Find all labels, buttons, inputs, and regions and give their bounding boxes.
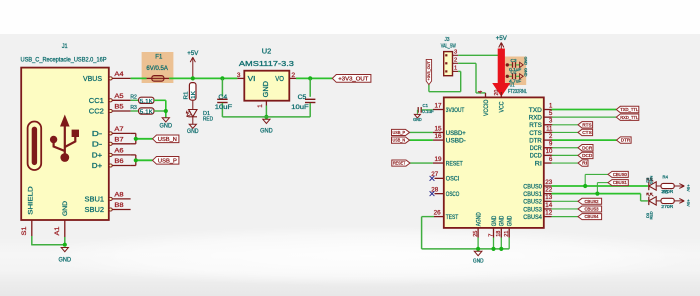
svg-text:D-: D- (92, 141, 103, 148)
svg-text:SHIELD: SHIELD (28, 186, 35, 215)
svg-text:B7: B7 (114, 136, 124, 143)
svg-text:DCD: DCD (582, 153, 593, 158)
svg-text:1: 1 (454, 66, 457, 72)
svg-text:VO: VO (275, 76, 284, 83)
svg-text:A1: A1 (54, 226, 61, 235)
svg-text:RESET: RESET (393, 161, 406, 166)
svg-text:DCR: DCR (530, 146, 543, 152)
svg-text:CBUS1: CBUS1 (523, 192, 542, 198)
svg-text:R2: R2 (130, 94, 137, 100)
svg-text:C4: C4 (218, 95, 227, 101)
svg-text:7: 7 (488, 234, 494, 237)
svg-text:+5V: +5V (686, 184, 691, 192)
svg-text:RXD_TTL: RXD_TTL (620, 115, 638, 120)
svg-text:3V3OUT: 3V3OUT (446, 108, 465, 114)
svg-text:FT232RNL: FT232RNL (508, 89, 527, 95)
svg-text:RED: RED (650, 211, 654, 219)
svg-text:RTS: RTS (529, 123, 542, 129)
svg-text:3: 3 (237, 72, 241, 79)
svg-text:TEST: TEST (446, 215, 459, 221)
svg-text:USB_N: USB_N (393, 138, 406, 143)
svg-text:R4: R4 (663, 175, 669, 180)
svg-text:GND: GND (413, 117, 422, 122)
svg-text:5.1K: 5.1K (140, 110, 153, 116)
svg-text:2: 2 (292, 72, 296, 79)
svg-text:VCCIO: VCCIO (484, 99, 490, 116)
svg-text:USB_N: USB_N (158, 137, 177, 143)
svg-text:VI: VI (248, 76, 256, 83)
svg-text:R1: R1 (183, 92, 189, 100)
svg-text:5.1K: 5.1K (140, 99, 153, 105)
svg-text:0.1uF: 0.1uF (422, 109, 434, 115)
svg-text:OSCO: OSCO (446, 192, 460, 198)
svg-text:R5: R5 (663, 190, 669, 195)
svg-text:CBUS2: CBUS2 (523, 200, 542, 206)
svg-text:GND: GND (62, 201, 69, 216)
svg-text:TXD_TTL: TXD_TTL (620, 107, 638, 112)
svg-text:15: 15 (435, 126, 443, 132)
svg-text:GND: GND (473, 258, 484, 264)
svg-text:VAL_SW: VAL_SW (441, 43, 457, 49)
svg-text:22: 22 (545, 187, 553, 193)
svg-text:CTS: CTS (529, 131, 542, 137)
svg-text:RI: RI (582, 161, 587, 166)
svg-text:USB_C_Receptacle_USB2.0_16P: USB_C_Receptacle_USB2.0_16P (21, 57, 107, 64)
svg-text:12: 12 (545, 210, 553, 216)
svg-text:R3: R3 (130, 105, 137, 111)
svg-text:16: 16 (435, 134, 443, 140)
svg-text:A4: A4 (114, 71, 124, 78)
svg-text:A6: A6 (114, 148, 124, 155)
svg-text:TXD: TXD (529, 108, 543, 114)
svg-text:VBUS: VBUS (83, 76, 102, 83)
svg-text:4: 4 (478, 90, 484, 93)
svg-text:GRN: GRN (650, 176, 654, 185)
svg-text:GND: GND (59, 258, 72, 264)
svg-text:+3V3_OUT: +3V3_OUT (427, 60, 431, 80)
svg-text:6V/0.5A: 6V/0.5A (146, 66, 168, 72)
svg-text:+5V: +5V (686, 199, 691, 207)
svg-text:A7: A7 (114, 126, 124, 133)
svg-text:GND: GND (500, 215, 506, 226)
svg-text:DCD: DCD (530, 154, 543, 160)
svg-text:CBUS4: CBUS4 (523, 215, 542, 221)
svg-text:2: 2 (454, 58, 457, 64)
svg-text:GND: GND (263, 81, 270, 97)
svg-text:U1: U1 (510, 83, 515, 89)
svg-text:14: 14 (545, 203, 553, 209)
svg-text:270R: 270R (661, 204, 674, 209)
svg-text:RED: RED (203, 116, 213, 122)
svg-text:GND: GND (160, 124, 173, 130)
svg-text:CC1: CC1 (89, 98, 104, 105)
svg-text:F1: F1 (155, 55, 163, 61)
svg-text:CBUS1: CBUS1 (613, 180, 628, 185)
svg-text:GND: GND (524, 57, 529, 66)
svg-text:+5V: +5V (187, 51, 198, 57)
svg-text:J3: J3 (445, 37, 450, 43)
svg-text:S1: S1 (21, 226, 28, 235)
svg-text:J1: J1 (62, 43, 69, 50)
svg-text:C2: C2 (511, 69, 517, 74)
svg-text:CTS: CTS (582, 130, 592, 135)
svg-text:CBUS3: CBUS3 (523, 207, 542, 213)
svg-text:13: 13 (545, 195, 553, 201)
svg-text:18: 18 (496, 231, 502, 237)
svg-text:DCR: DCR (582, 145, 593, 150)
svg-text:17: 17 (435, 103, 443, 109)
svg-text:11: 11 (546, 126, 553, 132)
svg-text:D+: D+ (92, 152, 103, 159)
svg-text:CBUS3: CBUS3 (585, 207, 600, 212)
svg-text:B5: B5 (114, 104, 124, 111)
svg-text:1: 1 (257, 104, 264, 108)
svg-text:SBU1: SBU1 (85, 196, 105, 203)
svg-text:AMS1117-3.3: AMS1117-3.3 (239, 61, 294, 68)
svg-text:D-: D- (92, 131, 103, 138)
svg-text:21: 21 (504, 231, 510, 237)
svg-text:+5V: +5V (496, 36, 507, 42)
svg-text:USB_P: USB_P (158, 158, 177, 164)
svg-text:CBUS0: CBUS0 (523, 184, 542, 190)
svg-text:GND: GND (508, 215, 514, 226)
svg-text:USBD+: USBD+ (446, 131, 466, 137)
svg-text:10uF: 10uF (291, 105, 309, 111)
svg-text:DTR: DTR (621, 138, 631, 143)
svg-text:19: 19 (435, 157, 443, 163)
svg-text:1K: 1K (191, 91, 197, 99)
svg-text:C5: C5 (298, 95, 307, 101)
svg-text:+3V3_OUT: +3V3_OUT (338, 76, 369, 82)
svg-text:USB_P: USB_P (393, 130, 406, 135)
svg-text:CBUS0: CBUS0 (613, 172, 628, 177)
svg-text:CBUS2: CBUS2 (585, 199, 600, 204)
svg-text:CC2: CC2 (89, 109, 104, 116)
svg-text:C3: C3 (511, 58, 517, 63)
svg-text:GND: GND (187, 129, 199, 135)
svg-text:A5: A5 (114, 93, 124, 100)
svg-text:B6: B6 (114, 158, 124, 165)
svg-text:U2: U2 (262, 49, 272, 56)
svg-text:GND: GND (492, 215, 498, 226)
svg-text:23: 23 (545, 180, 553, 186)
svg-text:A8: A8 (114, 192, 124, 199)
svg-text:AGND: AGND (476, 212, 482, 227)
svg-text:10uF: 10uF (215, 105, 233, 111)
svg-text:3: 3 (454, 50, 457, 56)
svg-text:26: 26 (434, 210, 442, 216)
svg-text:CBUS4: CBUS4 (585, 214, 600, 219)
svg-text:OSCI: OSCI (446, 177, 460, 183)
svg-text:SBU2: SBU2 (85, 207, 105, 214)
svg-text:20: 20 (494, 90, 500, 96)
svg-text:USBD-: USBD- (446, 138, 466, 144)
svg-text:GND: GND (260, 129, 273, 135)
svg-text:D+: D+ (92, 163, 103, 170)
svg-text:RXD: RXD (529, 115, 543, 121)
svg-text:RI: RI (535, 161, 542, 167)
svg-text:RTS: RTS (582, 122, 592, 127)
svg-text:GND: GND (524, 68, 529, 77)
svg-text:C1: C1 (423, 103, 429, 109)
svg-text:10: 10 (546, 149, 553, 155)
svg-text:RESET: RESET (446, 161, 463, 167)
svg-text:B8: B8 (114, 202, 124, 209)
svg-text:DTR: DTR (529, 138, 542, 144)
svg-text:VCC: VCC (500, 101, 506, 113)
svg-text:25: 25 (473, 231, 479, 237)
